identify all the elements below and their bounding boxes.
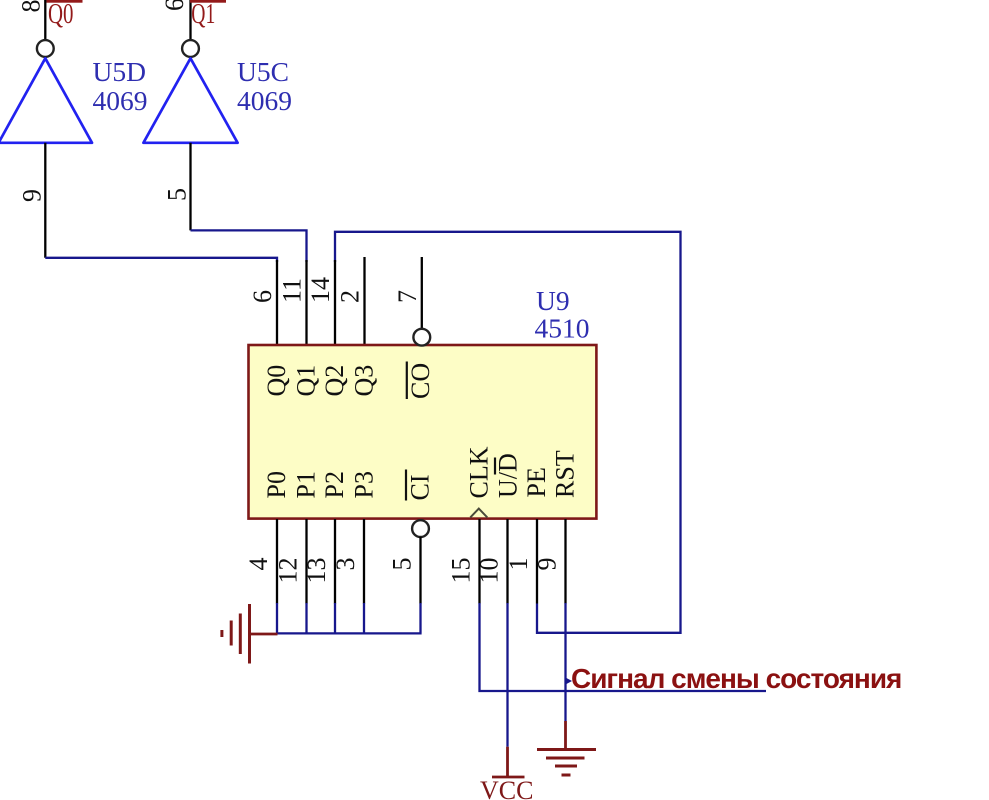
svg-text:Q1: Q1 <box>292 365 321 397</box>
svg-text:P3: P3 <box>350 471 379 498</box>
label U9 4510 <box>535 285 590 344</box>
IC U9 body <box>249 345 597 519</box>
svg-text:Q0: Q0 <box>262 365 291 397</box>
pin name CI with overline <box>406 470 435 501</box>
pin name CO with overline <box>406 362 435 400</box>
svg-text:P0: P0 <box>262 471 291 498</box>
svg-text:3: 3 <box>331 558 360 571</box>
wire feedback Q2 to PE <box>335 232 681 633</box>
pin stub 9 <box>564 519 566 604</box>
wire U/D to VCC <box>506 603 508 747</box>
wire <box>44 0 46 40</box>
wire U5D output <box>44 143 46 258</box>
svg-text:Сигнал смены состояния: Сигнал смены состояния <box>571 663 901 694</box>
bubble CI <box>412 520 429 537</box>
svg-text:RST: RST <box>551 450 580 498</box>
svg-text:P2: P2 <box>320 471 349 498</box>
pin name U/D with overline on D <box>494 453 523 498</box>
wire from U5C to pin 11 <box>191 230 307 262</box>
svg-text:12: 12 <box>274 558 303 584</box>
pin stub 4 <box>276 519 278 604</box>
inverter U5D bubble <box>37 40 54 57</box>
svg-text:8: 8 <box>16 0 45 13</box>
node Q0 <box>47 0 83 30</box>
node Q1 <box>190 0 226 30</box>
pin stub 11 <box>305 260 307 345</box>
svg-text:9: 9 <box>533 558 562 571</box>
pin stub 5 <box>419 537 421 604</box>
svg-text:U/D: U/D <box>494 453 523 498</box>
wire RST to ground <box>564 603 566 721</box>
ground (left) stem <box>249 633 278 636</box>
svg-text:4510: 4510 <box>535 313 590 344</box>
svg-text:4069: 4069 <box>237 85 292 116</box>
svg-text:VCC: VCC <box>480 776 533 800</box>
svg-text:CLK: CLK <box>465 446 494 498</box>
svg-text:15: 15 <box>447 558 476 584</box>
pin stub 13 <box>334 519 336 604</box>
wire CLK to signal line <box>480 603 767 691</box>
ground (bottom) <box>537 750 596 776</box>
pin stub 1 <box>536 519 538 604</box>
VCC symbol <box>492 747 525 777</box>
junction arrow at signal <box>566 678 573 685</box>
wire P pins to ground bus <box>277 603 422 633</box>
svg-text:CO: CO <box>406 363 435 399</box>
inverter U5C <box>143 58 237 143</box>
bubble CO <box>413 329 430 346</box>
pin stub 7 <box>421 257 423 329</box>
svg-text:5: 5 <box>388 558 417 571</box>
wire from U5D to pin 6 <box>45 258 277 262</box>
svg-text:Q3: Q3 <box>350 365 379 397</box>
label U5D 4069 <box>93 56 148 116</box>
pin stub 10 <box>506 519 508 604</box>
wire <box>189 0 191 40</box>
svg-text:14: 14 <box>306 277 335 303</box>
pin stub 14 <box>334 260 336 345</box>
svg-text:4: 4 <box>244 558 273 571</box>
svg-text:10: 10 <box>475 558 504 584</box>
label U5C 4069 <box>237 56 292 116</box>
pin stub 12 <box>305 519 307 604</box>
svg-text:U5D: U5D <box>93 56 146 87</box>
svg-text:5: 5 <box>162 188 191 201</box>
pin stub 15 <box>478 519 480 604</box>
svg-text:U5C: U5C <box>237 56 289 87</box>
svg-text:6: 6 <box>248 290 277 303</box>
inverter U5C bubble <box>182 40 199 57</box>
ground (left) <box>222 604 250 664</box>
pin stub 2 <box>363 257 365 345</box>
svg-text:Q2: Q2 <box>320 365 349 397</box>
svg-text:PE: PE <box>522 467 551 497</box>
svg-text:CI: CI <box>406 475 435 501</box>
pin stub 3 <box>363 519 365 604</box>
wire U5C output <box>189 143 191 231</box>
svg-text:6: 6 <box>160 0 189 11</box>
svg-text:Q1: Q1 <box>191 0 215 30</box>
svg-text:4069: 4069 <box>93 85 148 116</box>
svg-text:13: 13 <box>302 558 331 584</box>
svg-text:U9: U9 <box>536 285 570 316</box>
svg-text:1: 1 <box>504 558 533 571</box>
svg-text:7: 7 <box>393 290 422 303</box>
svg-text:2: 2 <box>336 290 365 303</box>
svg-text:11: 11 <box>278 278 307 303</box>
svg-text:9: 9 <box>17 189 46 202</box>
inverter U5D <box>0 58 92 143</box>
pin stub 6 <box>276 260 278 345</box>
ground (bottom) stem <box>564 721 567 749</box>
svg-text:P1: P1 <box>292 471 321 498</box>
clock caret CLK <box>470 509 487 518</box>
svg-text:Q0: Q0 <box>48 0 74 30</box>
